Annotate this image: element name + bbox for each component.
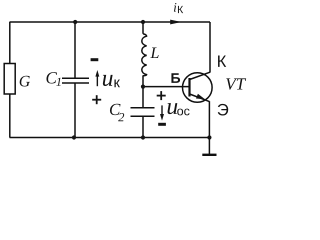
generator G body xyxy=(4,64,15,95)
transistor VT base bar xyxy=(188,78,190,97)
label C2 xyxy=(110,104,121,115)
ground bar xyxy=(202,154,216,156)
wire top rail xyxy=(10,21,211,23)
label minus of C1 xyxy=(91,58,99,61)
node bottom C1 junction xyxy=(72,135,76,139)
label uOC xyxy=(168,103,178,114)
wire C1 branch upper xyxy=(74,22,76,78)
label iK current xyxy=(174,3,176,12)
wire C2 branch lower xyxy=(142,116,144,137)
transistor VT circle xyxy=(183,73,213,103)
voltage arrow uK xyxy=(97,74,98,87)
label plus of C1 xyxy=(92,99,101,101)
voltage arrow uOC xyxy=(161,105,162,115)
label minus of C2 xyxy=(158,123,166,126)
label B base xyxy=(171,73,180,83)
wire emitter vertical xyxy=(208,101,210,137)
inductor L coil xyxy=(142,34,147,76)
label VT xyxy=(226,78,246,89)
wire left vertical lower xyxy=(9,94,11,138)
label plus of C2 xyxy=(157,95,166,97)
label uK xyxy=(103,75,113,86)
wire between L and base node xyxy=(142,75,144,107)
transistor VT collector diagonal xyxy=(190,72,210,79)
node base junction xyxy=(141,85,145,89)
label C1 xyxy=(46,72,57,83)
wire collector vertical xyxy=(209,22,211,73)
wire base xyxy=(143,86,189,88)
wire L branch from top rail xyxy=(142,22,144,34)
label G xyxy=(20,76,30,87)
node top C1 junction xyxy=(73,20,77,24)
capacitor C2 plates xyxy=(131,107,155,109)
wire bottom rail xyxy=(10,137,210,139)
transistor VT emitter arrowhead xyxy=(196,94,205,100)
wire left vertical upper xyxy=(9,22,11,64)
transistor VT emitter diagonal xyxy=(190,94,210,102)
label K collector xyxy=(218,56,226,67)
node top L junction xyxy=(141,20,145,24)
node bottom emitter junction xyxy=(207,135,211,139)
capacitor C1 plates xyxy=(62,77,89,79)
label E emitter xyxy=(218,104,228,116)
node bottom C2 junction xyxy=(141,135,145,139)
wire C1 branch lower xyxy=(74,83,76,137)
ground stem xyxy=(208,138,210,155)
label L xyxy=(150,48,158,58)
current arrow iK xyxy=(170,20,181,25)
